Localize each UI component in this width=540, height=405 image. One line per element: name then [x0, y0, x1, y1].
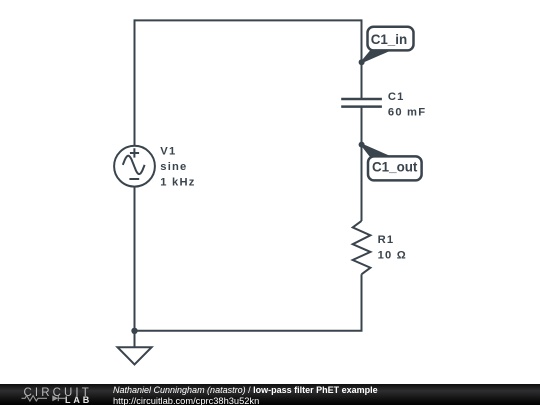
svg-text:C1: C1 [388, 91, 405, 103]
svg-text:1 kHz: 1 kHz [160, 176, 195, 188]
footer bar [0, 384, 540, 405]
C1 labels [388, 91, 426, 118]
circuitlab logo [0, 384, 100, 405]
node C1_out flag box [368, 156, 422, 180]
wire right vertical (R1 bottom to bottom corner) [361, 274, 363, 331]
ground [118, 331, 152, 365]
wire left vertical (top corner to V1) [134, 19, 136, 146]
svg-text:R1: R1 [378, 234, 395, 246]
wire right vertical (C1 bottom plate to R1 top) [361, 107, 363, 222]
svg-text:C1_out: C1_out [372, 159, 418, 174]
resistor R1 [353, 221, 371, 274]
svg-text:C1_in: C1_in [371, 32, 407, 47]
logo resistor+diode glyph [22, 396, 67, 402]
capacitor C1 [341, 99, 382, 107]
node C1_in flag tail [362, 50, 390, 62]
R1 labels [378, 234, 407, 262]
footer byline [113, 385, 378, 405]
junction dot bottom-left [131, 328, 137, 334]
svg-text:V1: V1 [160, 145, 176, 157]
wire right vertical (top corner to C1 top plate) [361, 19, 363, 99]
svg-text:LAB: LAB [65, 395, 92, 405]
svg-text:sine: sine [160, 161, 187, 173]
V1 labels [160, 145, 195, 188]
svg-text:60 mF: 60 mF [388, 107, 426, 119]
svg-text:10 Ω: 10 Ω [378, 250, 407, 262]
wire left vertical (V1 to bottom junction) [134, 187, 136, 331]
node C1_out flag tail [362, 145, 391, 158]
wire top horizontal [135, 19, 362, 21]
node C1_in flag box [368, 27, 414, 51]
node C1_in dot [359, 59, 365, 65]
voltage source V1 [114, 146, 155, 187]
node C1_out dot [359, 142, 365, 148]
wire bottom horizontal [135, 330, 363, 332]
